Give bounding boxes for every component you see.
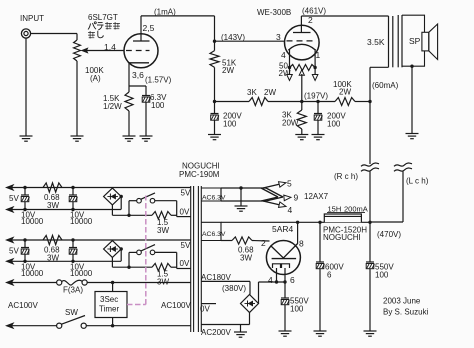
ground (C1) bbox=[140, 135, 153, 137]
resistor 0.68 3W bbox=[43, 183, 62, 192]
svg-text:SP: SP bbox=[409, 36, 421, 46]
capacitor C4 550V 100 bbox=[284, 282, 286, 298]
wire rail to C3 bbox=[302, 101, 318, 103]
node heater ground tap bbox=[239, 186, 242, 189]
switch SW bbox=[57, 323, 62, 328]
T2 secondary to ground bbox=[410, 65, 413, 68]
choke L1 PMC-1520H bump bbox=[324, 214, 361, 222]
svg-text:10000: 10000 bbox=[70, 217, 93, 226]
svg-text:2W: 2W bbox=[339, 88, 351, 97]
U3 pin8 lead to B+ rail bbox=[297, 222, 299, 244]
U1 cathode lead bbox=[128, 63, 130, 86]
heater fan-out arrows to 12AX7 bbox=[263, 183, 284, 188]
svg-text:F(3A): F(3A) bbox=[63, 286, 83, 295]
svg-text:2W: 2W bbox=[222, 66, 234, 75]
T1 winding bars and core bbox=[190, 186, 192, 332]
relay contact bbox=[128, 252, 130, 267]
resistor R3 51K 2W bbox=[214, 41, 216, 50]
U1 cathode bbox=[129, 62, 149, 64]
wire bus to bridge D3 bbox=[258, 282, 260, 304]
svg-text:0V: 0V bbox=[180, 259, 190, 268]
arrow to 5V supply (pin1) bbox=[314, 68, 316, 75]
capacitor 10V 10000 #b bbox=[71, 186, 74, 189]
ground (C2) bbox=[208, 134, 221, 136]
ground (R5) bbox=[295, 134, 308, 136]
arrow 5V output (-) bbox=[5, 206, 15, 213]
ground (speaker) bbox=[406, 133, 419, 135]
node 60mA junction bbox=[368, 100, 371, 103]
capacitor 10V 10000 #a bbox=[23, 238, 26, 241]
U3 filament V bbox=[271, 244, 298, 259]
resistor R2 1.5K 1/2W bbox=[128, 86, 130, 92]
svg-text:2003 June: 2003 June bbox=[383, 297, 421, 306]
svg-text:20W: 20W bbox=[282, 119, 299, 128]
svg-text:INPUT: INPUT bbox=[20, 14, 44, 23]
svg-text:(L c h): (L c h) bbox=[406, 177, 429, 186]
node rectifier output bbox=[296, 221, 299, 224]
svg-text:100: 100 bbox=[290, 305, 304, 314]
svg-text:3W: 3W bbox=[157, 226, 169, 235]
T2 core bbox=[397, 15, 399, 67]
T1 winding AC6.3V #2 bbox=[201, 222, 221, 240]
svg-text:(A): (A) bbox=[90, 74, 101, 83]
hum balance pot VR2 50ohm 2W bbox=[290, 65, 316, 71]
node 143V junction bbox=[213, 40, 216, 43]
break squiggle (L ch) bbox=[394, 163, 412, 166]
svg-text:5: 5 bbox=[287, 179, 292, 189]
T1 winding AC6.3V #1 bbox=[201, 188, 221, 201]
svg-text:AC100V: AC100V bbox=[8, 301, 38, 310]
triode U1 6SL7 envelope bbox=[124, 34, 158, 68]
svg-text:2: 2 bbox=[261, 238, 266, 248]
svg-text:AC6.3V: AC6.3V bbox=[202, 231, 226, 238]
filament bus bbox=[259, 281, 286, 283]
arrow AC100V hot bbox=[5, 279, 15, 286]
bridge rectifier bbox=[104, 241, 122, 258]
label para-setsuzoku (katakana/kanji) bbox=[88, 22, 104, 30]
svg-text:1,4: 1,4 bbox=[104, 42, 116, 52]
svg-text:(461V): (461V) bbox=[302, 7, 326, 16]
svg-text:100: 100 bbox=[375, 271, 389, 280]
svg-text:(470V): (470V) bbox=[377, 230, 401, 239]
ground (C5) bbox=[314, 330, 327, 332]
ground (AC winding) bbox=[240, 325, 242, 333]
capacitor C3 200V 100 bbox=[316, 100, 319, 103]
volume pot VR1 100K(A) bbox=[76, 34, 78, 41]
svg-text:Timer: Timer bbox=[99, 305, 119, 314]
svg-text:4: 4 bbox=[288, 205, 293, 215]
relay contact bbox=[128, 201, 130, 216]
ground (pot) bbox=[71, 135, 84, 137]
bridge rectifier bbox=[104, 188, 122, 205]
ground (R2) bbox=[123, 135, 136, 137]
T2 primary bottom to B+ line bbox=[370, 66, 389, 68]
svg-text:10000: 10000 bbox=[21, 269, 44, 278]
wiper of VR2 to cathode node bbox=[299, 70, 304, 76]
pot wiper arrow bbox=[81, 47, 89, 53]
capacitor 10V 10000 #a bbox=[23, 186, 26, 189]
U2 filament leads bbox=[289, 49, 291, 67]
output transformer T2 primary bbox=[388, 16, 390, 67]
svg-text:3,6: 3,6 bbox=[132, 70, 144, 80]
B+ riser wire bbox=[369, 102, 371, 165]
resistor R4 3K 2W bbox=[215, 101, 250, 103]
rectifier U3 5AR4 envelope bbox=[266, 241, 300, 275]
wire U2 plate to OPT bbox=[301, 15, 388, 17]
T1 winding AC200V bbox=[201, 324, 249, 326]
svg-text:PMC-190M: PMC-190M bbox=[179, 170, 220, 179]
resistor R7 0.68 3W bbox=[221, 240, 232, 242]
B+ rail from rectifier bbox=[221, 221, 370, 223]
svg-text:(1mA): (1mA) bbox=[154, 8, 176, 17]
arrow 5V output (+) bbox=[5, 236, 15, 243]
svg-text:(R c h): (R c h) bbox=[334, 172, 358, 181]
T2 secondary box bbox=[402, 15, 425, 66]
svg-text:0V: 0V bbox=[200, 305, 210, 314]
svg-text:3W: 3W bbox=[240, 254, 252, 263]
svg-text:3: 3 bbox=[276, 32, 281, 42]
resistor 0.68 3W bbox=[43, 235, 62, 244]
node wiper junction bbox=[300, 100, 303, 103]
bridge ac wire bbox=[111, 257, 113, 267]
svg-text:5V: 5V bbox=[181, 189, 191, 198]
svg-text:AC200V: AC200V bbox=[201, 328, 231, 337]
input jack J1 bbox=[21, 29, 30, 38]
svg-text:AC180V: AC180V bbox=[201, 273, 231, 282]
wire jack sleeve to ground bbox=[25, 38, 27, 136]
U3 cathode bar bbox=[272, 258, 297, 260]
svg-text:1: 1 bbox=[316, 50, 321, 60]
svg-text:4: 4 bbox=[268, 275, 273, 285]
arrow to 5V supply (pin4) bbox=[289, 68, 291, 75]
heater wire bottom bbox=[221, 200, 266, 202]
svg-text:2W: 2W bbox=[264, 88, 276, 97]
svg-text:100: 100 bbox=[327, 120, 341, 129]
svg-text:6SL7GT: 6SL7GT bbox=[88, 13, 118, 22]
wire 143V node to U2 grid bbox=[215, 40, 285, 42]
ground (heater) bbox=[235, 205, 248, 207]
bridge dc out wire bbox=[120, 249, 122, 261]
U2 plate bar bbox=[293, 32, 311, 34]
heater wire top bbox=[221, 187, 266, 189]
timer box 3Sec bbox=[111, 281, 114, 284]
U3 plate leads down bbox=[276, 268, 278, 282]
svg-text:100: 100 bbox=[151, 101, 165, 110]
triode U2 300B envelope bbox=[285, 25, 320, 60]
U1 grid (dashed) bbox=[126, 50, 150, 52]
svg-text:5V: 5V bbox=[9, 194, 19, 203]
svg-text:3K: 3K bbox=[247, 88, 257, 97]
resistor 1.5 3W bbox=[152, 212, 171, 220]
node choke in bbox=[318, 221, 321, 224]
svg-text:(197V): (197V) bbox=[304, 92, 328, 101]
U2 grid (dashed) bbox=[287, 40, 317, 42]
break squiggle (R ch) bbox=[361, 163, 379, 166]
resistor R6 100K 2W bbox=[318, 101, 335, 103]
svg-text:NOGUCHI: NOGUCHI bbox=[323, 233, 361, 242]
U1 plate bbox=[133, 40, 150, 42]
svg-text:0V: 0V bbox=[180, 207, 190, 216]
svg-text:3Sec: 3Sec bbox=[100, 295, 118, 304]
node choke out bbox=[368, 221, 371, 224]
svg-text:5AR4: 5AR4 bbox=[272, 224, 294, 234]
svg-text:6: 6 bbox=[290, 275, 295, 285]
svg-text:6: 6 bbox=[327, 271, 332, 280]
wire wiper to 6SL7 grid bbox=[87, 50, 124, 52]
relay out to winding bbox=[155, 200, 177, 202]
svg-text:(380V): (380V) bbox=[222, 284, 246, 293]
capacitor 10V 10000 #b bbox=[71, 238, 74, 241]
relay out to winding bbox=[155, 251, 177, 253]
svg-text:(1.57V): (1.57V) bbox=[145, 76, 172, 85]
low wire to resistor 1.5 bbox=[112, 266, 152, 268]
ground (input jack) bbox=[20, 135, 33, 137]
svg-text:9: 9 bbox=[294, 193, 299, 203]
svg-text:SW: SW bbox=[65, 308, 78, 317]
bridge dc out wire bbox=[120, 197, 122, 210]
svg-text:10000: 10000 bbox=[21, 217, 44, 226]
svg-text:By S. Suzuki: By S. Suzuki bbox=[383, 308, 429, 317]
svg-text:3.5K: 3.5K bbox=[367, 37, 385, 47]
fuse F 3A bbox=[57, 280, 62, 285]
resistor R5 3K 20W bbox=[301, 102, 303, 111]
wire U1 plate to node 143V bbox=[141, 15, 215, 17]
svg-text:12AX7: 12AX7 bbox=[304, 192, 329, 201]
svg-text:4: 4 bbox=[281, 50, 286, 60]
svg-text:1/2W: 1/2W bbox=[103, 102, 122, 111]
arrow 5V output (-) bbox=[5, 258, 15, 265]
svg-text:5V: 5V bbox=[181, 241, 191, 250]
U2 filament bbox=[288, 44, 315, 50]
ground (C3) bbox=[312, 134, 325, 136]
svg-text:100: 100 bbox=[223, 120, 237, 129]
node 197V rail bbox=[213, 100, 216, 103]
label 0V tap bbox=[201, 303, 216, 305]
ground (C4) bbox=[279, 330, 292, 332]
wire jack to volume pot bbox=[31, 33, 77, 35]
low wire to resistor 1.5 bbox=[112, 214, 152, 216]
resistor 1.5 3W bbox=[152, 263, 171, 271]
svg-text:3W: 3W bbox=[47, 201, 59, 210]
capacitor C6 550V 100 bbox=[369, 222, 371, 262]
svg-text:WE-300B: WE-300B bbox=[257, 8, 291, 17]
wire L-ch feed bbox=[402, 172, 404, 223]
svg-text:8: 8 bbox=[299, 239, 304, 249]
U3 plate staples bbox=[273, 264, 281, 268]
capacitor C2 200V 100 bbox=[214, 102, 216, 114]
arrow 5V output (+) bbox=[5, 184, 15, 191]
bridge ac wire bbox=[111, 205, 113, 215]
capacitor C1 6.3V 100 bbox=[145, 86, 147, 96]
svg-text:5V: 5V bbox=[9, 247, 19, 256]
timer control dashed wire bbox=[127, 196, 146, 305]
svg-text:2,5: 2,5 bbox=[143, 23, 155, 33]
ground (C6) bbox=[364, 330, 377, 332]
svg-text:(60mA): (60mA) bbox=[372, 81, 399, 90]
speaker bbox=[422, 32, 429, 51]
svg-text:10000: 10000 bbox=[70, 269, 93, 278]
capacitor C5 600V 6 bbox=[319, 222, 321, 262]
svg-text:AC100V: AC100V bbox=[161, 301, 191, 310]
arrow AC100V neutral bbox=[5, 322, 15, 329]
wire cathode node bbox=[129, 85, 146, 87]
bridge rectifier D3 bbox=[241, 295, 259, 313]
